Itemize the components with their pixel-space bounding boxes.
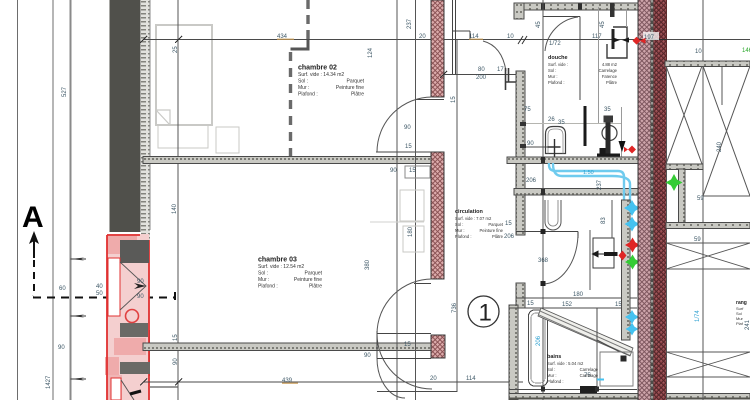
line y377 — [666, 376, 750, 378]
pillow — [156, 110, 170, 125]
dimension line left 3 — [70, 0, 72, 400]
cyan pipe 2 — [553, 163, 630, 205]
svg-text:15: 15 — [404, 342, 411, 348]
closet rect ch03 b — [403, 226, 424, 252]
door ch02 top sill — [415, 99, 444, 101]
svg-text:Surf. vide : 14.34 m2: Surf. vide : 14.34 m2 — [298, 72, 344, 78]
svg-text:chambre 02: chambre 02 — [298, 65, 337, 72]
vestibule bottom line — [377, 391, 457, 393]
svg-text:Sol :: Sol : — [298, 79, 308, 85]
vertical line x597 lower — [596, 340, 598, 392]
wall line y308 — [509, 307, 637, 309]
svg-text:1/72: 1/72 — [549, 41, 561, 47]
svg-text:1.50: 1.50 — [583, 170, 594, 176]
douche door arc — [545, 17, 578, 51]
bottom exterior band — [509, 394, 750, 399]
balcony slab band top — [665, 61, 750, 67]
junction dot bottom — [541, 281, 546, 286]
vline x612 segment — [611, 200, 613, 238]
riser wall hatch strip — [622, 200, 631, 340]
bathtub vertical — [529, 310, 548, 386]
svg-text:197: 197 — [644, 35, 655, 41]
shaft red circle — [126, 310, 139, 323]
svg-text:Surf. vide : 5.04 m2: Surf. vide : 5.04 m2 — [547, 361, 584, 366]
entry door arc — [483, 41, 506, 71]
cyan valve marker 2 — [625, 217, 640, 232]
bottom door arc — [377, 358, 405, 398]
shaft hatched block lower — [120, 362, 150, 374]
svg-text:Plafond :: Plafond : — [548, 80, 565, 85]
balcony vertical stub — [721, 66, 723, 105]
svg-text:Carrelage: Carrelage — [599, 68, 618, 73]
bottom threshold dark blob — [580, 386, 597, 393]
cyan pipe 1 — [549, 163, 624, 205]
cyan valve marker 3 — [625, 310, 639, 324]
shower thick bar — [612, 29, 615, 49]
red flow marker — [624, 146, 636, 154]
door ch02 arc — [377, 97, 432, 152]
svg-text:368: 368 — [538, 258, 549, 264]
dimension line left 2 — [52, 0, 54, 400]
interior band wall y157-163 — [507, 157, 640, 164]
radiator cap — [604, 116, 614, 123]
door ch02 sill line — [376, 151, 431, 153]
svg-text:117: 117 — [592, 34, 602, 40]
dim tick bottom 178 — [175, 379, 182, 386]
svg-text:10: 10 — [507, 34, 514, 40]
svg-text:90: 90 — [404, 125, 411, 131]
red flow marker top — [633, 37, 646, 45]
svg-text:4.88 m2: 4.88 m2 — [602, 62, 618, 67]
dim tick at 143 — [140, 36, 147, 43]
svg-text:59: 59 — [694, 237, 701, 243]
tick arrow on line3 lower — [71, 315, 85, 318]
dim text 197 on wall — [643, 32, 659, 40]
exterior wall dark mass — [110, 0, 141, 232]
shower niche outline — [607, 27, 627, 58]
black arrow down — [619, 141, 626, 152]
dim tick bottom 143 — [140, 379, 147, 386]
door ch03 lines — [414, 283, 431, 285]
corridor door arc — [543, 236, 578, 284]
top exterior wall band — [514, 3, 664, 10]
attic boundary corner — [291, 40, 309, 49]
line y196 — [703, 195, 750, 197]
shaft salmon top bar — [107, 236, 137, 254]
bed lower part — [158, 125, 208, 148]
interior band wall y188-195 — [514, 189, 640, 196]
cyan valve marker 1 — [624, 200, 640, 216]
svg-text:152: 152 — [562, 302, 573, 308]
svg-text:45: 45 — [536, 21, 542, 28]
svg-text:180: 180 — [573, 292, 584, 298]
dim tick at 178 — [175, 36, 182, 43]
svg-text:Sol :: Sol : — [548, 68, 556, 73]
douche inner vline — [598, 7, 600, 124]
line y243 — [666, 242, 750, 244]
svg-text:1427: 1427 — [46, 375, 52, 389]
X brace cell1 — [666, 66, 702, 164]
shaft swing arrow — [134, 283, 146, 289]
svg-text:50: 50 — [96, 291, 103, 297]
shaft lower swing lines — [121, 380, 134, 400]
svg-text:Peinture fine: Peinture fine — [294, 277, 322, 283]
balcony vertical main — [702, 0, 704, 400]
bottom door vertical line — [376, 331, 378, 358]
pillar hatch strip — [679, 169, 686, 225]
tick arrow on line3 — [71, 258, 85, 261]
bottom wall line — [509, 389, 637, 391]
green valve marker balcony — [666, 174, 683, 191]
svg-text:Plâtre: Plâtre — [351, 92, 364, 98]
horizontal dim line y40 (top, full) — [143, 39, 750, 41]
red valve marker — [625, 238, 640, 253]
vertical dim line x415 — [415, 0, 417, 400]
svg-text:Plâtre: Plâtre — [492, 234, 504, 239]
svg-text:527: 527 — [62, 86, 68, 97]
svg-text:90: 90 — [173, 358, 179, 365]
svg-text:60: 60 — [59, 286, 66, 292]
outer wall light pink crosshatch — [638, 0, 651, 400]
svg-text:Plaf: Plaf — [736, 321, 744, 326]
bottom dim line y382 — [143, 381, 523, 383]
vertical dim line x457 — [456, 40, 458, 392]
corridor west wall hatch lower — [516, 283, 525, 308]
toilet rounded shape — [546, 127, 566, 154]
top wall corner block — [514, 3, 524, 19]
green valve marker — [625, 255, 640, 270]
section line end tick — [174, 292, 176, 303]
small band under triangle — [666, 164, 703, 170]
svg-text:Parquet: Parquet — [304, 271, 322, 277]
line y352 — [666, 351, 750, 353]
slab band y223 — [666, 223, 750, 229]
bed chambre02 — [156, 25, 212, 125]
svg-text:237: 237 — [407, 18, 413, 29]
svg-text:40: 40 — [96, 284, 103, 290]
svg-text:1/74: 1/74 — [695, 310, 701, 322]
svg-text:17: 17 — [497, 67, 504, 73]
svg-text:90: 90 — [58, 345, 65, 351]
dim tick 443 y74 — [440, 71, 447, 78]
electric panel bar — [604, 252, 618, 256]
svg-text:Mur :: Mur : — [548, 74, 558, 79]
shower upper vline — [626, 9, 628, 27]
corridor door hook — [577, 232, 579, 239]
svg-text:206: 206 — [526, 178, 537, 184]
svg-text:Carrelage: Carrelage — [580, 367, 599, 372]
svg-text:Surf. vide : 7.07 m2: Surf. vide : 7.07 m2 — [455, 216, 492, 221]
dim line y74 — [443, 74, 516, 76]
top dark stub — [610, 3, 615, 17]
svg-text:241: 241 — [745, 319, 750, 330]
niche line y146 — [520, 146, 556, 148]
section arrow up — [29, 231, 39, 244]
brick maroon wall — [654, 0, 667, 400]
svg-text:15: 15 — [173, 334, 179, 341]
toilet center cross — [548, 139, 561, 158]
svg-text:1: 1 — [479, 300, 492, 327]
door ch03 double swing arc — [377, 279, 432, 389]
svg-text:circulation: circulation — [455, 209, 483, 215]
svg-text:Plafond :: Plafond : — [547, 379, 564, 384]
svg-text:240: 240 — [717, 141, 723, 152]
shaft hatched block mid — [120, 323, 148, 337]
small rect under band right — [405, 166, 430, 178]
svg-text:Parquet: Parquet — [346, 79, 364, 85]
svg-text:80: 80 — [478, 67, 485, 73]
vertical dim line x178 — [177, 0, 179, 400]
corridor door header line y231 — [516, 231, 578, 233]
svg-text:15: 15 — [409, 168, 416, 174]
drain square — [621, 356, 627, 362]
X brace cell2 — [703, 66, 750, 196]
entry door post double line — [453, 0, 456, 74]
svg-text:Sol :: Sol : — [258, 271, 268, 277]
svg-text:90: 90 — [137, 279, 144, 285]
svg-text:35: 35 — [604, 107, 611, 113]
pink wall column upper segment — [431, 0, 444, 97]
pink wall column mid segment — [431, 152, 444, 279]
radiator base — [597, 154, 620, 160]
svg-text:bains: bains — [547, 354, 561, 360]
wall edge lines — [637, 0, 639, 400]
svg-text:15: 15 — [451, 96, 457, 103]
svg-text:237: 237 — [597, 179, 603, 190]
svg-text:chambre 03: chambre 03 — [258, 257, 297, 264]
svg-text:Plafond :: Plafond : — [258, 284, 278, 290]
svg-text:90: 90 — [364, 353, 371, 359]
shaft top dark block — [120, 240, 149, 263]
X brace row3 — [666, 352, 750, 377]
svg-text:Surf. vide : 12.54 m2: Surf. vide : 12.54 m2 — [258, 264, 304, 270]
dim line y298 — [516, 297, 637, 299]
bains inner corner line — [597, 308, 620, 352]
closet rect ch03 a — [400, 190, 424, 221]
svg-text:Peinture fine: Peinture fine — [336, 85, 364, 91]
douche door leaf vertical — [579, 17, 581, 101]
attic dashed boundary left — [289, 52, 292, 156]
exterior wall inner hatch strip — [141, 0, 150, 240]
svg-text:140: 140 — [172, 203, 178, 214]
corridor west wall hatch upper — [516, 71, 525, 235]
shaft red outline — [107, 235, 149, 400]
svg-text:Carrelage: Carrelage — [580, 373, 599, 378]
content groups inserted below — [18, 0, 177, 400]
closet top light line — [370, 221, 424, 223]
wall inner edge line — [149, 0, 151, 230]
svg-text:180: 180 — [408, 226, 414, 237]
svg-text:Mur :: Mur : — [547, 373, 557, 378]
double slash tick y40 x520 — [518, 36, 527, 44]
svg-text:A: A — [22, 201, 44, 234]
svg-text:90: 90 — [527, 141, 534, 147]
douche door header — [543, 16, 580, 18]
svg-text:90: 90 — [137, 294, 144, 300]
svg-text:Mur :: Mur : — [455, 228, 465, 233]
circled plan number 1 — [468, 296, 499, 327]
nightstand — [216, 127, 239, 153]
dim arrows on line — [613, 37, 629, 42]
svg-text:35: 35 — [558, 120, 565, 126]
shaft door swing lines upper — [120, 262, 146, 310]
shaft salmon bottom block — [105, 357, 119, 375]
tub right outline — [600, 352, 633, 386]
svg-text:25: 25 — [173, 46, 179, 53]
svg-text:Peinture fine: Peinture fine — [479, 228, 503, 233]
electric panel rect — [593, 238, 614, 268]
svg-text:146: 146 — [742, 48, 750, 54]
svg-text:Surf. vide :: Surf. vide : — [548, 62, 568, 67]
interior wall band between ch02 and ch03 — [143, 157, 431, 164]
shaft lower swing tick — [130, 391, 141, 394]
svg-text:83: 83 — [601, 217, 607, 224]
tick arrow on line3 bottom — [71, 378, 85, 381]
svg-text:Plafond :: Plafond : — [455, 234, 472, 239]
section dashed line vertical — [33, 260, 34, 296]
svg-text:douche: douche — [548, 55, 568, 61]
stub line right of shaft — [150, 386, 178, 388]
diagonal hatched band — [538, 308, 633, 356]
svg-text:124: 124 — [368, 47, 374, 58]
radiator circle — [602, 126, 617, 141]
shaft salmon mid block — [114, 338, 146, 355]
svg-text:Plâtre: Plâtre — [606, 80, 618, 85]
svg-text:114: 114 — [466, 376, 476, 382]
svg-text:206: 206 — [536, 335, 542, 346]
pink wall column lower block — [431, 335, 445, 358]
X brace row2 — [666, 243, 750, 269]
niche line y123 — [525, 123, 621, 125]
svg-text:Mur :: Mur : — [298, 85, 309, 91]
balcony vertical left — [666, 61, 668, 400]
svg-text:90: 90 — [390, 168, 397, 174]
thick black wall stub — [584, 106, 587, 146]
dim line over walls — [637, 39, 667, 41]
section dashed line horizontal — [33, 297, 176, 299]
shaft door white rect lower — [111, 378, 121, 400]
svg-text:Parquet: Parquet — [488, 222, 504, 227]
svg-text:15: 15 — [505, 221, 512, 227]
bains west wall hatch — [509, 305, 518, 400]
douche inner vline b — [621, 107, 623, 160]
svg-text:Faïence: Faïence — [602, 74, 618, 79]
svg-text:75: 75 — [524, 107, 531, 113]
line y269 — [666, 268, 750, 270]
svg-text:380: 380 — [365, 259, 371, 270]
wall corner piece right of door — [506, 68, 517, 90]
shaft door white rect upper — [108, 258, 120, 316]
entry door header line — [452, 30, 470, 32]
lower dark wall block — [140, 330, 150, 376]
svg-text:26: 26 — [548, 117, 555, 123]
svg-text:Mur :: Mur : — [258, 277, 269, 283]
bottom sill line — [377, 358, 431, 360]
shaft pink fill — [107, 234, 149, 400]
svg-text:Plâtre: Plâtre — [309, 284, 322, 290]
vertical line x543 — [542, 0, 544, 400]
svg-text:206: 206 — [504, 234, 515, 240]
svg-text:736: 736 — [452, 302, 458, 313]
vline x590 segment — [589, 230, 591, 290]
svg-text:59: 59 — [697, 196, 704, 202]
svg-text:Sol :: Sol : — [547, 367, 555, 372]
junction dot top — [541, 229, 546, 234]
panel arrow left — [593, 251, 605, 257]
svg-text:20: 20 — [419, 34, 426, 40]
U radiator shape — [545, 200, 561, 230]
svg-text:200: 200 — [476, 75, 487, 81]
vertical dim line x397 — [396, 0, 398, 400]
svg-text:15: 15 — [527, 301, 534, 307]
svg-text:Sol :: Sol : — [455, 222, 463, 227]
svg-text:Plafond :: Plafond : — [298, 92, 318, 98]
junction dots on bands — [541, 157, 545, 163]
svg-text:15: 15 — [405, 144, 412, 150]
interior wall band bottom (corridor side) — [143, 343, 431, 351]
radiator stem — [606, 121, 611, 158]
svg-text:45: 45 — [600, 21, 606, 28]
svg-text:20: 20 — [430, 376, 437, 382]
attic dashed boundary top — [306, 0, 309, 40]
svg-text:10: 10 — [695, 49, 702, 55]
dimension line left 1 — [17, 0, 19, 400]
